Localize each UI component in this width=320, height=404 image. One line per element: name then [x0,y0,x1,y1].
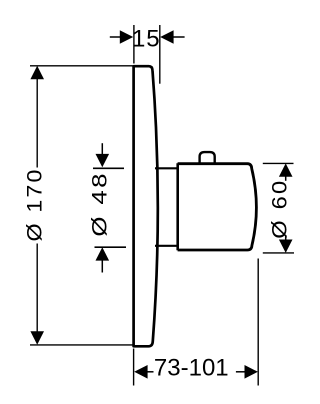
svg-text:Ø 60: Ø 60 [267,179,291,239]
dim Ø48: upper arrowhead (down) [96,154,110,167]
dim Ø60: top extension line [263,162,294,164]
svg-text:73-101: 73-101 [154,355,229,382]
dim 73-101: right arrow tail [236,371,245,373]
dim Ø48: lower arrowhead (up) [96,247,110,260]
dim Ø60: top arrowhead (up) [279,163,293,176]
dim 73-101: left arrowhead [134,365,147,379]
svg-text:Ø 170: Ø 170 [22,167,46,241]
dim Ø170: bottom extension line [30,344,133,346]
dim 15: right extension line [159,25,161,84]
dim Ø170: top arrowhead [30,66,44,79]
dim Ø60: bottom dimension line stub [285,235,287,240]
dim Ø60: bottom extension line [263,252,294,254]
dim Ø170: dimension line lower segment [36,244,38,342]
dim Ø48: bottom extension line [95,246,127,248]
dim Ø48: upper dimension line [101,143,103,156]
dim Ø170: bottom arrowhead [30,331,44,344]
stem top line [155,167,177,169]
dim 15: left arrow tail [110,36,122,38]
stem bottom line [155,245,177,247]
dim 15: left extension line [133,25,135,64]
plate (escutcheon side view) [134,66,158,346]
dim Ø60: top dimension line stub [285,176,287,181]
knob back edge [176,163,179,250]
dim Ø170: top extension line [30,65,133,67]
svg-text:15: 15 [132,25,161,52]
dim Ø48: top extension line [93,167,124,169]
dim Ø48: lower dimension line [101,260,103,273]
dim 15: right arrowhead [160,30,173,44]
svg-text:Ø 48: Ø 48 [88,171,112,237]
dim Ø60: bottom arrowhead (down) [279,240,293,253]
dim 73-101: left extension line [133,349,135,386]
dim 15: left arrowhead [120,30,133,44]
knob top tab [200,152,215,164]
dim 15: right arrow tail [173,36,185,38]
dim Ø170: dimension line upper segment [36,70,38,168]
knob body [178,164,257,250]
dim 73-101: right arrowhead [245,365,258,379]
dim 73-101: right extension line [257,259,259,386]
dim 73-101: left arrow tail [147,371,154,373]
